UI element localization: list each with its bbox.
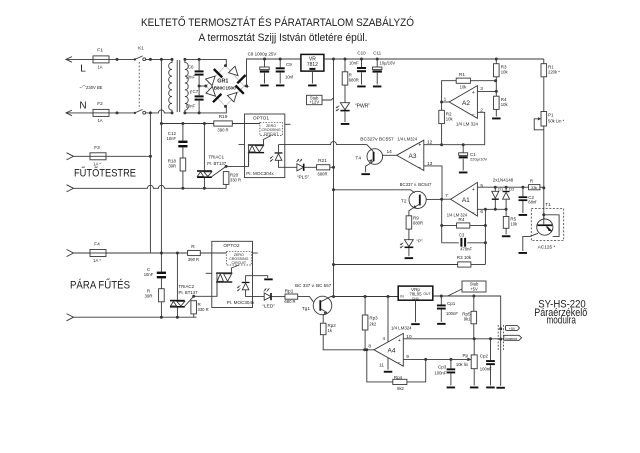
svg-text:CIRCUIT: CIRCUIT — [264, 132, 279, 136]
snubber resistor R18 39R — [182, 147, 184, 158]
svg-text:PI. MOC304x: PI. MOC304x — [227, 300, 255, 306]
svg-text:470nF: 470nF — [460, 246, 472, 251]
svg-text:14: 14 — [386, 149, 392, 155]
capacitor Cp3 100nF — [450, 359, 452, 368]
svg-text:220k *: 220k * — [548, 70, 560, 75]
svg-text:330 R: 330 R — [198, 307, 209, 312]
svg-text:C10: C10 — [357, 51, 366, 56]
ground under R5 — [502, 235, 511, 237]
A2 pin3 wire — [477, 90, 496, 92]
T1 base-collector tie loop — [544, 215, 559, 237]
VR ground pin — [311, 71, 313, 83]
svg-text:Tg1: Tg1 — [302, 306, 311, 312]
capacitor Cp1 100nF — [440, 296, 442, 305]
T1 emitter wire to ground — [523, 233, 538, 251]
svg-text:R3 10k: R3 10k — [457, 255, 472, 260]
svg-text:C6: C6 — [188, 65, 194, 70]
svg-text:F1: F1 — [97, 48, 103, 54]
heater triac feed line y=123.5 — [161, 123, 213, 125]
svg-text:P1: P1 — [548, 113, 554, 118]
resistor R3 10k divider — [495, 59, 497, 64]
A4 pin9 wire — [403, 358, 467, 360]
svg-text:10nF: 10nF — [185, 75, 195, 80]
+12V rail to VRp — [334, 296, 399, 298]
OPTO2 LED cathode wire to ground — [246, 276, 268, 282]
capacitor C3 470nF — [442, 242, 459, 244]
svg-text:N: N — [79, 101, 86, 112]
fuse F3 — [90, 153, 106, 160]
svg-text:OPTO1: OPTO1 — [253, 116, 270, 122]
voltage regulator VR 7812 — [301, 54, 324, 71]
svg-text:PI. MOC304x: PI. MOC304x — [246, 171, 274, 177]
triac TRIAC2 BT137 — [176, 253, 178, 300]
K1 gang dashed link — [138, 62, 140, 109]
svg-text:OPTO2: OPTO2 — [223, 243, 240, 249]
svg-text:R1: R1 — [459, 72, 465, 78]
A4 V+ pin 4 — [387, 297, 389, 343]
svg-text:-: - — [211, 84, 213, 90]
capacitor C1 220u/10V — [462, 145, 464, 153]
svg-text:5: 5 — [480, 183, 483, 189]
transformer secondary winding — [185, 59, 188, 113]
OPTO1 triac left rail down to gate line — [248, 146, 250, 167]
svg-text:+: + — [398, 338, 401, 344]
svg-text:C8 1000µ 25V: C8 1000µ 25V — [248, 52, 277, 57]
svg-text:Rp1: Rp1 — [285, 288, 294, 294]
VRp output +5V line — [433, 296, 501, 328]
svg-text:R4: R4 — [458, 217, 464, 223]
resistor Rp2 1k — [320, 323, 326, 335]
A2 pin2 wire — [477, 112, 484, 144]
terminal N arrow — [66, 110, 72, 116]
resistor R19 390R — [214, 121, 233, 126]
VRp ground pin — [415, 300, 417, 322]
node column pin6 down to R3 line — [484, 209, 486, 264]
svg-text:10nF: 10nF — [349, 61, 359, 66]
wire Stab+5V lead — [448, 289, 462, 296]
svg-text:1A: 1A — [97, 118, 102, 123]
module connector dashed lines — [497, 325, 499, 351]
svg-text:C3: C3 — [459, 232, 465, 237]
bridge diode SW — [206, 87, 216, 97]
OPTO2 LED anode wire out — [246, 290, 265, 297]
diode D1 — [494, 187, 496, 191]
capacitor C7 10nF — [198, 86, 200, 95]
op-amp A1 1/4 LM324 — [451, 182, 478, 216]
svg-text:BC327v BC557: BC327v BC557 — [360, 136, 394, 142]
Stab +5V box — [462, 281, 486, 292]
svg-text:Rp3: Rp3 — [369, 316, 378, 321]
switch K1 upper pole — [134, 58, 136, 60]
svg-text:K1: K1 — [138, 46, 144, 52]
capacitor C2 68nF — [522, 187, 524, 196]
svg-text:kimenet: kimenet — [505, 337, 517, 341]
resistor R 330R (para) — [191, 301, 197, 314]
snubber capacitor C12 10nF — [182, 124, 184, 141]
T4 base wire to A3 output — [383, 154, 397, 156]
T2 emitter wire to R9 — [413, 204, 420, 208]
wire F3 to vertical A — [106, 155, 150, 157]
svg-text:CIRCUIT: CIRCUIT — [232, 261, 247, 265]
svg-text:D1: D1 — [498, 187, 504, 192]
svg-text:680R: 680R — [317, 172, 327, 177]
terminal F3 chevron — [67, 153, 74, 160]
vertical line B (L feed) — [160, 59, 162, 253]
gate line to OPTO2 — [194, 283, 217, 297]
svg-text:680 R: 680 R — [284, 299, 295, 304]
svg-text:Cp3: Cp3 — [438, 365, 447, 370]
svg-text:F2: F2 — [97, 101, 103, 107]
svg-text:10nf: 10nf — [285, 75, 294, 80]
para return line — [67, 314, 74, 321]
svg-text:B80C1500: B80C1500 — [214, 86, 236, 91]
terminal F4 chevron — [67, 249, 74, 256]
OPTO2 zero crossing dashed box — [226, 251, 251, 265]
svg-text:+: + — [472, 187, 475, 193]
svg-text:Cp2: Cp2 — [480, 354, 489, 359]
svg-text:4: 4 — [382, 336, 385, 342]
OPTO2 left pin stub — [206, 272, 212, 274]
LED PLS indicator — [297, 164, 304, 171]
ground under R4 — [492, 118, 501, 120]
OPTO2 triac left rail down to gate line — [216, 274, 218, 297]
ground under LED P — [405, 257, 414, 259]
+12V rail from regulator — [324, 58, 544, 60]
svg-text:680R: 680R — [413, 221, 423, 226]
resistor R3 10k lower — [334, 264, 458, 266]
svg-text:OUT: OUT — [423, 292, 430, 296]
svg-text:T1: T1 — [545, 202, 551, 208]
optocoupler OPTO2 box — [212, 241, 253, 307]
Tg1 emitter wire — [320, 309, 327, 313]
svg-text:PI. BT137: PI. BT137 — [207, 161, 226, 167]
A4 pin10 wire — [403, 338, 503, 340]
svg-text:“PWR”: “PWR” — [355, 104, 370, 110]
T4 emitter to ground — [369, 161, 374, 164]
fuse F4 — [90, 250, 106, 257]
svg-text:L: L — [80, 64, 86, 75]
bridge diode NE — [229, 66, 239, 76]
svg-text:KELTETŐ TERMOSZTÁT ÉS PÁRATART: KELTETŐ TERMOSZTÁT ÉS PÁRATARTALOM SZABÁ… — [141, 15, 414, 29]
svg-text:1/4 LM324: 1/4 LM324 — [391, 326, 412, 332]
OPTO2 internal phototriac — [216, 272, 232, 273]
svg-text:T4: T4 — [355, 156, 361, 162]
svg-text:39R: 39R — [145, 294, 153, 299]
resistor R9 680R — [406, 216, 412, 229]
svg-text:−: − — [472, 112, 475, 118]
heater return line with hops — [67, 185, 74, 192]
OPTO1 triac right rail to ZC box — [264, 136, 272, 145]
potentiometer Pp 10k lin — [473, 339, 475, 355]
bridge rectifier GR1 B80C1500 — [206, 66, 244, 107]
svg-text:1/4 LM324: 1/4 LM324 — [397, 136, 417, 142]
svg-text:10k: 10k — [510, 222, 518, 227]
TRIAC2 gate wire — [184, 296, 193, 306]
svg-text:10nF: 10nF — [166, 136, 176, 141]
svg-text:A1: A1 — [462, 197, 470, 204]
sensor T1 dashed box — [531, 209, 563, 241]
OPTO1 internal phototriac — [248, 144, 264, 145]
resistor R21 680R — [317, 165, 330, 170]
resistor R1 220k setpoint — [543, 59, 545, 64]
A4 V- pin 11 to ground — [387, 358, 389, 370]
transformer core — [176, 60, 178, 112]
svg-text:50k Lin *: 50k Lin * — [548, 119, 565, 124]
svg-text:R21: R21 — [318, 158, 327, 164]
svg-text:10nF: 10nF — [144, 272, 154, 277]
svg-text:PÁRA FŰTÉS: PÁRA FŰTÉS — [70, 277, 130, 291]
svg-text:C11: C11 — [373, 51, 381, 56]
T1 base wire from top — [543, 215, 545, 225]
resistor R 390R (para) — [188, 250, 201, 255]
OPTO1 internal LED — [275, 152, 283, 153]
svg-text:PI. BT137: PI. BT137 — [179, 290, 198, 296]
bridge diode SE — [227, 92, 237, 102]
wire F4 to vertical B — [106, 252, 161, 254]
potentiometer P1 50k Lin — [541, 112, 547, 127]
OPTO1 LED anode wire out — [279, 160, 297, 167]
wire Rp2 to A4 output — [323, 335, 374, 350]
svg-text:1A *: 1A * — [93, 258, 101, 263]
wire F2 to K1 lower — [109, 112, 135, 114]
para triac feed line — [161, 252, 187, 254]
svg-text:TRIAC2: TRIAC2 — [179, 284, 195, 290]
resistor Rp5 9k1 — [473, 296, 475, 311]
ground under PWR led — [341, 123, 350, 125]
svg-text:“LED”: “LED” — [262, 304, 275, 310]
svg-text:A4: A4 — [388, 348, 396, 355]
gate line to OPTO1 — [226, 153, 249, 166]
transformer TR1 primary winding — [169, 59, 172, 113]
svg-text:T2: T2 — [401, 199, 407, 205]
A3 pin12 wire — [424, 144, 485, 146]
resistor R 680R for PWR led — [344, 59, 346, 72]
voltage regulator VRp 78L05 — [398, 286, 433, 300]
OPTO2 triac right rail to ZC box — [231, 265, 239, 272]
svg-text:33k: 33k — [531, 185, 537, 190]
op-amp A4 1/4 LM324 — [374, 333, 403, 366]
Stab +12V box — [307, 95, 323, 104]
feedback resistor Rp4 — [367, 350, 393, 382]
OPTO1 right pin stub — [285, 123, 291, 125]
T2 collector wire to +12V — [334, 190, 415, 193]
svg-text:F3: F3 — [94, 145, 100, 151]
svg-text:10k: 10k — [446, 117, 454, 122]
svg-text:Cp1: Cp1 — [447, 301, 456, 306]
svg-text:6: 6 — [480, 209, 483, 215]
svg-text:10k: 10k — [501, 102, 509, 107]
svg-text:1/4 LM 324: 1/4 LM 324 — [456, 122, 478, 128]
node bridge minus / C6-C7 midpoint — [198, 85, 201, 88]
diode D2 — [505, 187, 507, 190]
OPTO1 left pin stub — [239, 144, 245, 146]
connector ground line — [500, 331, 502, 386]
capacitor C6 10nF — [198, 59, 200, 70]
svg-text:100nF: 100nF — [446, 311, 458, 316]
transistor T4 BC327 — [367, 149, 383, 165]
svg-text:+: + — [418, 142, 421, 148]
svg-text:7: 7 — [445, 193, 448, 199]
op-amp A3 1/4 LM324 — [397, 140, 424, 170]
LED P indicator — [405, 240, 414, 247]
wire Rp1 to Tg1 base — [298, 297, 314, 302]
capacitor C9 10nF — [279, 59, 281, 67]
snubber capacitor C 10nF on vertical B — [160, 253, 162, 272]
svg-text:−: − — [398, 360, 401, 366]
svg-text:9k1: 9k1 — [464, 317, 471, 322]
svg-text:220µ/10V: 220µ/10V — [470, 157, 488, 162]
svg-text:11: 11 — [379, 363, 384, 369]
optocoupler OPTO1 box — [245, 114, 285, 178]
secondary bottom rail to bridge — [185, 106, 226, 113]
wire F1 to K1 — [109, 58, 135, 60]
resistor R2 10k — [441, 102, 443, 110]
A3 pin13 wire down — [424, 166, 442, 199]
T2 base wire to A1 output node — [426, 198, 442, 200]
transistor Tg1 BC337 — [313, 296, 332, 315]
OPTO2 internal LED — [242, 282, 250, 283]
svg-text:GR1: GR1 — [217, 79, 228, 85]
svg-text:−: − — [418, 165, 421, 171]
svg-text:R: R — [191, 244, 195, 250]
A1 output wire — [442, 198, 451, 200]
transistor T2 BC337 — [409, 191, 426, 208]
svg-text:+12V: +12V — [309, 100, 319, 105]
connector +5V flag — [505, 326, 519, 331]
svg-text:390 R: 390 R — [188, 257, 199, 262]
svg-text:C7: C7 — [193, 89, 199, 94]
svg-text:+: + — [472, 90, 475, 96]
wire Stab+12V to +12V vertical — [322, 98, 334, 100]
svg-text:A3: A3 — [409, 153, 417, 160]
node column pin7/pin13 — [441, 199, 443, 243]
svg-text:1A: 1A — [97, 65, 102, 70]
LED PWR — [344, 85, 346, 103]
A2 output wire — [442, 101, 450, 103]
svg-text:“P”: “P” — [417, 239, 424, 244]
svg-text:BC 337 v. BC 557: BC 337 v. BC 557 — [295, 283, 332, 289]
fuse F2 — [93, 109, 109, 116]
transistor T1 AC125 — [537, 219, 553, 235]
op-amp A2 1/4 LM324 — [449, 86, 477, 119]
triac TRIAC1 BT137 — [203, 124, 205, 171]
svg-text:F4: F4 — [94, 242, 100, 248]
svg-text:TRIAC1: TRIAC1 — [209, 155, 225, 161]
A1 pin6 wire — [477, 208, 506, 210]
svg-text:BC337 v. BC547: BC337 v. BC547 — [400, 182, 432, 188]
+12V vertical feed line — [333, 59, 335, 297]
svg-text:Pp: Pp — [462, 353, 468, 358]
svg-text:+5V: +5V — [509, 327, 516, 331]
svg-text:8k2: 8k2 — [397, 386, 404, 391]
svg-text:680R: 680R — [349, 78, 359, 83]
resistor R4 feedback — [442, 225, 457, 227]
svg-text:GND: GND — [412, 296, 420, 300]
resistor R20 330R — [223, 172, 229, 185]
resistor Rp1 680R — [285, 294, 298, 299]
capacitor Cp2 100nF — [490, 339, 492, 360]
bridge plus output wire to +12V unreg rail — [244, 59, 301, 86]
svg-text:−: − — [472, 211, 475, 217]
svg-text:AC125 *: AC125 * — [538, 245, 556, 251]
resistor R5 10k — [505, 209, 507, 216]
svg-text:1: 1 — [444, 96, 447, 102]
resistor R4 10k divider — [494, 96, 500, 109]
svg-text:1A *: 1A * — [93, 162, 101, 167]
OPTO1 LED cathode wire to T4 with hop over +12V — [278, 145, 280, 153]
svg-text:A2: A2 — [462, 100, 470, 107]
svg-text:FŰTŐTESTRE: FŰTŐTESTRE — [74, 166, 136, 180]
connector kimenet flag — [504, 335, 522, 340]
OPTO1 zero crossing dashed box — [260, 122, 282, 135]
svg-text:C9: C9 — [286, 62, 292, 67]
capacitor C8 1000u electrolytic — [264, 59, 266, 67]
svg-text:10k lin: 10k lin — [456, 362, 469, 367]
svg-text:D2: D2 — [509, 187, 515, 192]
fuse F1 — [93, 56, 109, 63]
svg-text:~⌒230V BE: ~⌒230V BE — [79, 85, 102, 90]
svg-text:100nF: 100nF — [434, 371, 446, 376]
OPTO2 right pin stub — [253, 252, 258, 254]
TRIAC1 gate wire — [211, 166, 226, 177]
svg-text:A termosztát Szijj István ötle: A termosztát Szijj István ötletére épül. — [199, 32, 368, 44]
svg-text:330 R: 330 R — [230, 178, 241, 183]
vertical line A (N feed) — [149, 113, 151, 253]
svg-text:2x1N4148: 2x1N4148 — [493, 178, 514, 183]
snubber resistor R 39R on vertical B — [160, 278, 162, 288]
secondary top rail to bridge — [185, 59, 226, 65]
svg-text:+5V: +5V — [470, 286, 478, 291]
switch K1 lower pole — [134, 112, 136, 114]
A1 pin5 wire — [477, 186, 528, 188]
svg-text:10k: 10k — [460, 85, 468, 90]
svg-text:10µ/16V: 10µ/16V — [380, 61, 396, 66]
svg-text:R19: R19 — [219, 114, 228, 120]
svg-text:“PLS”: “PLS” — [297, 175, 310, 181]
terminal L arrow — [66, 57, 72, 63]
resistor Rp3 2k2 — [364, 297, 366, 316]
feedback resistor R1 10k — [442, 81, 457, 102]
wire K1 lower to primary bottom, hop over vertical B — [146, 110, 172, 113]
svg-text:10nF: 10nF — [185, 104, 195, 109]
svg-text:10k: 10k — [501, 70, 509, 75]
svg-text:100nF: 100nF — [480, 367, 492, 372]
svg-text:68nf: 68nf — [528, 200, 537, 205]
wire K1 to transformer primary top; node L-switched — [146, 58, 172, 60]
svg-text:2k2: 2k2 — [369, 322, 376, 327]
svg-text:39R: 39R — [168, 164, 176, 169]
bridge diode NW — [206, 76, 216, 86]
Tg1 collector wire to +12V — [320, 297, 333, 303]
svg-text:8: 8 — [368, 344, 371, 350]
svg-text:390 R: 390 R — [217, 128, 228, 133]
svg-text:modulra: modulra — [546, 315, 576, 327]
svg-text:Rp4: Rp4 — [394, 375, 403, 380]
svg-text:IN: IN — [400, 294, 404, 298]
LED indicator (para) — [264, 293, 271, 300]
T4 collector from OPTO1 line — [371, 149, 373, 152]
svg-text:7812: 7812 — [307, 62, 318, 68]
wire P1 to T1 base — [543, 126, 545, 219]
